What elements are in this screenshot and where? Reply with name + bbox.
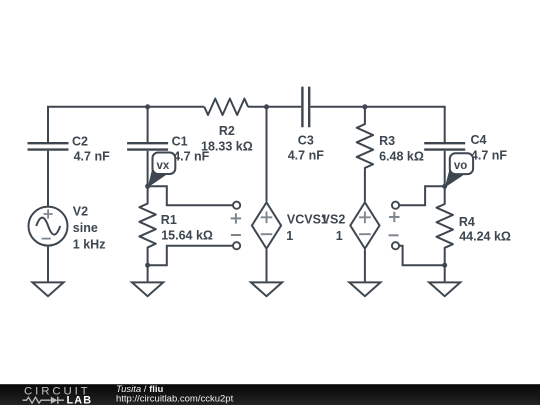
terminal − circle (right pair) [392, 242, 399, 249]
VCVS source VS2 (diamond) [350, 202, 379, 248]
wire R1 bottom to ground [147, 265, 149, 281]
junction node R4 bottom [442, 263, 447, 268]
wire top rail left: C2 column corner to R2 left terminal [48, 107, 204, 142]
resistor R4 [437, 186, 453, 265]
junction node vo (C4/R4/terminal wire) [442, 184, 447, 189]
wire vo node to + terminal (right pair) [399, 186, 445, 205]
terminal + circle (right pair) [392, 202, 399, 209]
wire rail node to C1 top plate [147, 107, 149, 142]
svg-text:4.7 nF: 4.7 nF [288, 148, 324, 162]
svg-text:vx: vx [157, 160, 170, 172]
wire C4 bottom plate to vo node [444, 151, 446, 187]
wire − terminal (right pair) to R4 bottom node [399, 246, 445, 266]
junction node: C1 top on rail [145, 104, 150, 109]
ground under R1 [132, 282, 163, 296]
pin − (left pair) [231, 234, 241, 236]
svg-text:vo: vo [454, 160, 467, 172]
pin + (left pair) [231, 213, 241, 223]
svg-text:VS2: VS2 [322, 213, 346, 227]
wire R2 right terminal to C3 left plate [248, 106, 301, 108]
svg-text:1 kHz: 1 kHz [73, 238, 106, 252]
wire C1 bottom plate to vx node [147, 151, 149, 187]
ground under R4 [429, 282, 460, 296]
svg-text:4.7 nF: 4.7 nF [173, 150, 209, 164]
junction node vx (C1/R1/terminal wire) [145, 184, 150, 189]
terminal + circle (left pair) [233, 202, 240, 209]
svg-text:C3: C3 [298, 133, 314, 147]
capacitor C2 [28, 143, 69, 149]
junction node: VCVS1 top on rail [264, 104, 269, 109]
terminal − circle (left pair) [233, 242, 240, 249]
flag vx [148, 153, 176, 188]
svg-text:R4: R4 [459, 215, 475, 229]
wire V2 to ground [47, 246, 49, 282]
VCVS source VCVS1 (diamond) [252, 202, 281, 248]
resistor R2 [204, 99, 248, 115]
svg-text:4.7 nF: 4.7 nF [471, 149, 507, 163]
svg-text:6.48 kΩ: 6.48 kΩ [379, 150, 424, 164]
capacitor C1 [127, 143, 168, 149]
footer bar [0, 384, 540, 405]
wire VS2 to ground [364, 250, 366, 282]
pin + (right pair) [389, 212, 399, 222]
voltage source V2 [29, 207, 68, 246]
svg-text:sine: sine [73, 221, 98, 235]
pin − (right pair) [389, 234, 399, 236]
svg-text:C4: C4 [471, 133, 487, 147]
svg-text:R2: R2 [219, 124, 235, 138]
svg-text:1: 1 [336, 229, 343, 243]
wire rail node to VCVS1 [266, 107, 268, 202]
wire vx node to + terminal (left pair) [148, 186, 234, 205]
svg-text:C2: C2 [72, 134, 88, 148]
junction node R1 bottom [145, 263, 150, 268]
capacitor C3 [302, 87, 309, 128]
logo resistor zigzag and diode [23, 397, 51, 403]
svg-text:http://circuitlab.com/ccku2pt: http://circuitlab.com/ccku2pt [116, 394, 234, 405]
svg-text:R3: R3 [379, 134, 395, 148]
resistor R1 [139, 186, 155, 265]
svg-text:15.64 kΩ: 15.64 kΩ [161, 228, 213, 242]
wire C3 right plate to top-right corner into C4 [310, 107, 444, 142]
wire VCVS1 to ground [266, 250, 268, 282]
svg-text:4.7 nF: 4.7 nF [74, 150, 110, 164]
svg-text:V2: V2 [73, 204, 88, 218]
wire − terminal (left pair) to R1 bottom node [148, 246, 234, 266]
wire C2 bottom plate to V2 [47, 151, 49, 207]
resistor R3 [357, 107, 373, 202]
wire R4 bottom to ground [444, 265, 446, 281]
junction node: R3 top on rail [362, 104, 367, 109]
svg-text:LAB: LAB [67, 394, 93, 405]
svg-text:C1: C1 [172, 134, 188, 148]
capacitor C4 [424, 143, 465, 149]
ground under V2 [32, 282, 63, 296]
ground under VS2 [349, 282, 380, 296]
ground under VCVS1 [251, 282, 282, 296]
svg-text:1: 1 [286, 229, 293, 243]
svg-text:44.24 kΩ: 44.24 kΩ [459, 229, 511, 243]
svg-text:R1: R1 [161, 213, 177, 227]
flag vo [445, 153, 473, 187]
